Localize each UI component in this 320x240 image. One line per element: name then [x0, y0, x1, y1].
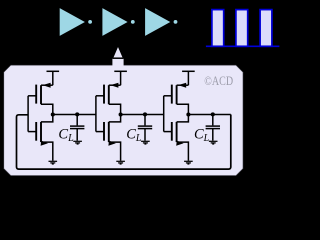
nmos transistor M2	[28, 115, 53, 161]
vdd supply symbol stage 1	[47, 71, 60, 85]
value label CL stage 3	[194, 126, 210, 143]
vdd supply symbol stage 2	[114, 71, 127, 85]
ground symbol under CL stage 1	[73, 141, 82, 144]
ground symbol under M2	[49, 161, 58, 164]
clock pulse 2	[236, 10, 248, 47]
vdd supply symbol stage 3	[182, 71, 195, 85]
pmos transistor M5	[164, 83, 189, 115]
value label CL stage 1	[58, 126, 74, 143]
inverter A2 (symbol)	[102, 8, 127, 36]
schematic box	[4, 65, 243, 175]
output node dot stage 1	[51, 112, 55, 116]
ground symbol under M4	[116, 161, 125, 164]
output node dot stage 3	[186, 112, 190, 116]
feedback wire from stage 3 output to stage 1 input	[17, 115, 231, 170]
capacitor junction dot stage 2	[143, 112, 147, 116]
output wire stage 2	[121, 114, 164, 116]
node dot after inverter A1	[88, 20, 92, 24]
load capacitor CL stage 1	[70, 114, 84, 140]
node dot after inverter A3	[174, 20, 178, 24]
clock pulse 3	[260, 10, 272, 47]
callout pointer to inverter A2	[112, 46, 123, 67]
nmos transistor M4	[96, 115, 121, 161]
clock pulse 1	[212, 10, 224, 47]
load capacitor CL stage 2	[138, 114, 152, 140]
inverter A1 (symbol)	[60, 8, 85, 36]
output node dot stage 2	[119, 112, 123, 116]
gate input bus stage 1	[27, 96, 29, 132]
load capacitor CL stage 3	[206, 114, 220, 140]
pmos transistor M1	[28, 83, 53, 115]
gate input bus stage 3	[163, 96, 165, 132]
value label CL stage 2	[126, 126, 142, 143]
inverter A3 (symbol)	[145, 8, 170, 36]
nmos transistor M6	[164, 115, 189, 161]
output wire stage 3	[188, 114, 230, 116]
ground symbol under CL stage 2	[141, 141, 150, 144]
gate input bus stage 2	[95, 96, 97, 132]
ground symbol under CL stage 3	[209, 141, 218, 144]
ground symbol under M6	[184, 161, 193, 164]
capacitor junction dot stage 1	[75, 112, 79, 116]
output wire stage 1	[53, 114, 96, 116]
capacitor junction dot stage 3	[211, 112, 215, 116]
watermark ACD	[204, 74, 233, 88]
svg-text:©ACD: ©ACD	[204, 74, 233, 88]
node dot after inverter A2	[131, 20, 135, 24]
clock waveform baseline	[206, 45, 280, 47]
pmos transistor M3	[96, 83, 121, 115]
